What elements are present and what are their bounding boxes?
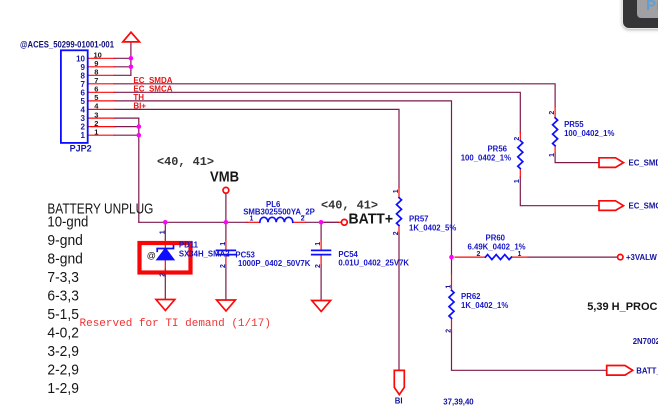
svg-text:1: 1 xyxy=(159,230,166,234)
svg-text:2: 2 xyxy=(220,264,227,268)
svg-text:BATT_ON: BATT_ON xyxy=(636,367,658,376)
svg-text:2: 2 xyxy=(549,111,556,115)
svg-text:10-gnd: 10-gnd xyxy=(47,213,88,230)
svg-text:2: 2 xyxy=(160,273,167,277)
svg-text:0.01U_0402_25V7K: 0.01U_0402_25V7K xyxy=(338,258,409,267)
svg-text:1-2,9: 1-2,9 xyxy=(47,380,79,397)
svg-text:1: 1 xyxy=(94,128,98,137)
svg-text:2: 2 xyxy=(393,231,400,235)
svg-text:2N7002: 2N7002 xyxy=(633,337,658,346)
svg-text:BI+: BI+ xyxy=(133,102,146,111)
svg-text:5-1,5: 5-1,5 xyxy=(47,306,79,323)
svg-text:1: 1 xyxy=(393,189,400,193)
svg-text:PR57: PR57 xyxy=(409,215,429,224)
svg-text:9-gnd: 9-gnd xyxy=(47,232,83,249)
svg-text:EC_SMCA: EC_SMCA xyxy=(629,202,658,211)
svg-text:1: 1 xyxy=(81,131,86,140)
svg-text:BATT+: BATT+ xyxy=(349,210,394,227)
svg-text:@ACES_50299-01001-001: @ACES_50299-01001-001 xyxy=(20,39,114,49)
svg-text:8-gnd: 8-gnd xyxy=(47,250,83,267)
svg-text:PJP2: PJP2 xyxy=(70,144,92,154)
svg-text:100_0402_1%: 100_0402_1% xyxy=(564,129,614,138)
svg-text:2: 2 xyxy=(514,137,521,141)
svg-text:2: 2 xyxy=(446,329,453,333)
svg-text:PR55: PR55 xyxy=(564,120,584,129)
svg-text:1K_0402_1%: 1K_0402_1% xyxy=(461,301,508,310)
svg-text:<40, 41>: <40, 41> xyxy=(157,155,214,169)
svg-text:6-3,3: 6-3,3 xyxy=(47,287,79,304)
svg-text:VMB: VMB xyxy=(210,168,239,185)
svg-text:5,39 H_PROCHOT#: 5,39 H_PROCHOT# xyxy=(587,301,658,313)
svg-text:+3VALW: +3VALW xyxy=(626,253,657,262)
svg-text:PD11: PD11 xyxy=(179,241,199,250)
svg-text:<40, 41>: <40, 41> xyxy=(321,199,378,213)
svg-text:EC_SMDA: EC_SMDA xyxy=(629,159,658,168)
svg-text:1: 1 xyxy=(220,242,227,246)
svg-text:1: 1 xyxy=(518,251,522,258)
svg-text:1: 1 xyxy=(514,179,521,183)
svg-text:2: 2 xyxy=(301,216,305,223)
svg-text:100_0402_1%: 100_0402_1% xyxy=(461,154,511,163)
svg-text:2-2,9: 2-2,9 xyxy=(47,362,79,379)
svg-text:1000P_0402_50V7K: 1000P_0402_50V7K xyxy=(238,259,311,268)
svg-text:1: 1 xyxy=(549,153,556,157)
svg-text:BI: BI xyxy=(395,396,403,405)
svg-text:@: @ xyxy=(147,251,156,261)
svg-text:Reserved for TI demand (1/17): Reserved for TI demand (1/17) xyxy=(80,318,271,330)
svg-text:PR56: PR56 xyxy=(487,145,507,154)
svg-text:4-0,2: 4-0,2 xyxy=(47,324,79,341)
svg-text:2: 2 xyxy=(477,251,481,258)
svg-text:PR60: PR60 xyxy=(486,234,506,243)
svg-text:37,39,40: 37,39,40 xyxy=(443,397,474,406)
svg-text:SX34H_SMA2: SX34H_SMA2 xyxy=(179,249,230,258)
svg-text:2: 2 xyxy=(315,264,322,268)
svg-text:3-2,9: 3-2,9 xyxy=(47,343,79,360)
svg-text:7-3,3: 7-3,3 xyxy=(47,269,79,286)
svg-text:1: 1 xyxy=(250,216,254,223)
svg-text:1: 1 xyxy=(445,285,452,289)
svg-text:1: 1 xyxy=(315,242,322,246)
svg-text:1K_0402_5%: 1K_0402_5% xyxy=(409,224,456,233)
svg-text:PR62: PR62 xyxy=(461,292,481,301)
